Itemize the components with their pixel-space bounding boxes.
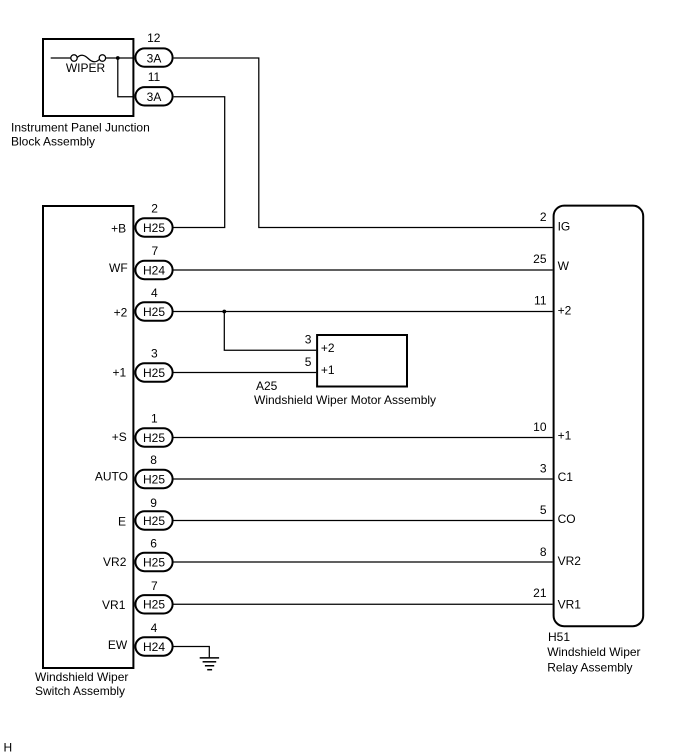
svg-text:3: 3 (305, 332, 312, 346)
svg-text:H24: H24 (143, 263, 165, 277)
svg-text:W: W (558, 259, 570, 273)
svg-text:+1: +1 (321, 363, 335, 377)
svg-text:Switch Assembly: Switch Assembly (35, 684, 125, 698)
svg-text:10: 10 (533, 420, 547, 434)
svg-text:+1: +1 (558, 429, 572, 443)
svg-text:3: 3 (540, 462, 547, 476)
svg-text:7: 7 (151, 579, 158, 593)
svg-text:25: 25 (533, 252, 547, 266)
svg-text:7: 7 (151, 244, 158, 258)
svg-text:VR2: VR2 (103, 555, 127, 569)
svg-text:4: 4 (151, 286, 158, 300)
svg-text:H25: H25 (143, 598, 165, 612)
svg-text:C1: C1 (558, 470, 574, 484)
svg-text:11: 11 (148, 70, 161, 84)
svg-text:H25: H25 (143, 514, 165, 528)
svg-text:5: 5 (540, 503, 547, 517)
svg-text:Relay Assembly: Relay Assembly (547, 661, 632, 675)
svg-text:VR2: VR2 (558, 554, 582, 568)
svg-text:H25: H25 (143, 431, 165, 445)
svg-text:Windshield Wiper: Windshield Wiper (35, 670, 128, 684)
svg-text:+S: +S (112, 430, 127, 444)
svg-text:+2: +2 (114, 305, 128, 319)
svg-text:VR1: VR1 (558, 597, 582, 611)
svg-text:CO: CO (558, 512, 576, 526)
svg-text:12: 12 (147, 31, 161, 45)
svg-text:+2: +2 (321, 341, 335, 355)
svg-text:+2: +2 (558, 304, 572, 318)
svg-text:8: 8 (150, 453, 157, 467)
svg-text:EW: EW (108, 638, 128, 652)
svg-text:A25: A25 (256, 379, 278, 393)
svg-text:5: 5 (305, 355, 312, 369)
svg-text:3A: 3A (147, 51, 162, 65)
svg-text:9: 9 (150, 496, 157, 510)
svg-text:WF: WF (109, 261, 128, 275)
svg-text:VR1: VR1 (102, 598, 126, 612)
svg-text:Windshield Wiper Motor Assembl: Windshield Wiper Motor Assembly (254, 393, 436, 407)
svg-text:AUTO: AUTO (95, 470, 128, 484)
svg-text:H24: H24 (143, 640, 165, 654)
svg-text:11: 11 (534, 294, 547, 308)
svg-text:3: 3 (151, 347, 158, 361)
svg-text:Block Assembly: Block Assembly (11, 135, 95, 149)
svg-text:H51: H51 (548, 630, 570, 644)
svg-text:H25: H25 (143, 555, 165, 569)
svg-text:H25: H25 (143, 472, 165, 486)
svg-text:H25: H25 (143, 221, 165, 235)
svg-text:6: 6 (150, 536, 157, 550)
svg-text:2: 2 (540, 210, 547, 224)
svg-text:E: E (118, 514, 126, 528)
svg-text:21: 21 (533, 586, 547, 600)
svg-text:8: 8 (540, 545, 547, 559)
svg-text:4: 4 (151, 621, 158, 635)
svg-text:Instrument Panel Junction: Instrument Panel Junction (11, 120, 150, 134)
svg-text:3A: 3A (147, 90, 162, 104)
svg-text:2: 2 (151, 201, 158, 215)
svg-text:H25: H25 (143, 305, 165, 319)
svg-text:+B: +B (111, 222, 126, 236)
svg-text:IG: IG (558, 220, 571, 234)
svg-text:1: 1 (151, 412, 158, 426)
svg-text:WIPER: WIPER (66, 61, 106, 75)
svg-text:H25: H25 (143, 366, 165, 380)
svg-text:Windshield Wiper: Windshield Wiper (547, 645, 640, 659)
svg-text:+1: +1 (113, 365, 127, 379)
svg-text:H: H (4, 740, 13, 754)
